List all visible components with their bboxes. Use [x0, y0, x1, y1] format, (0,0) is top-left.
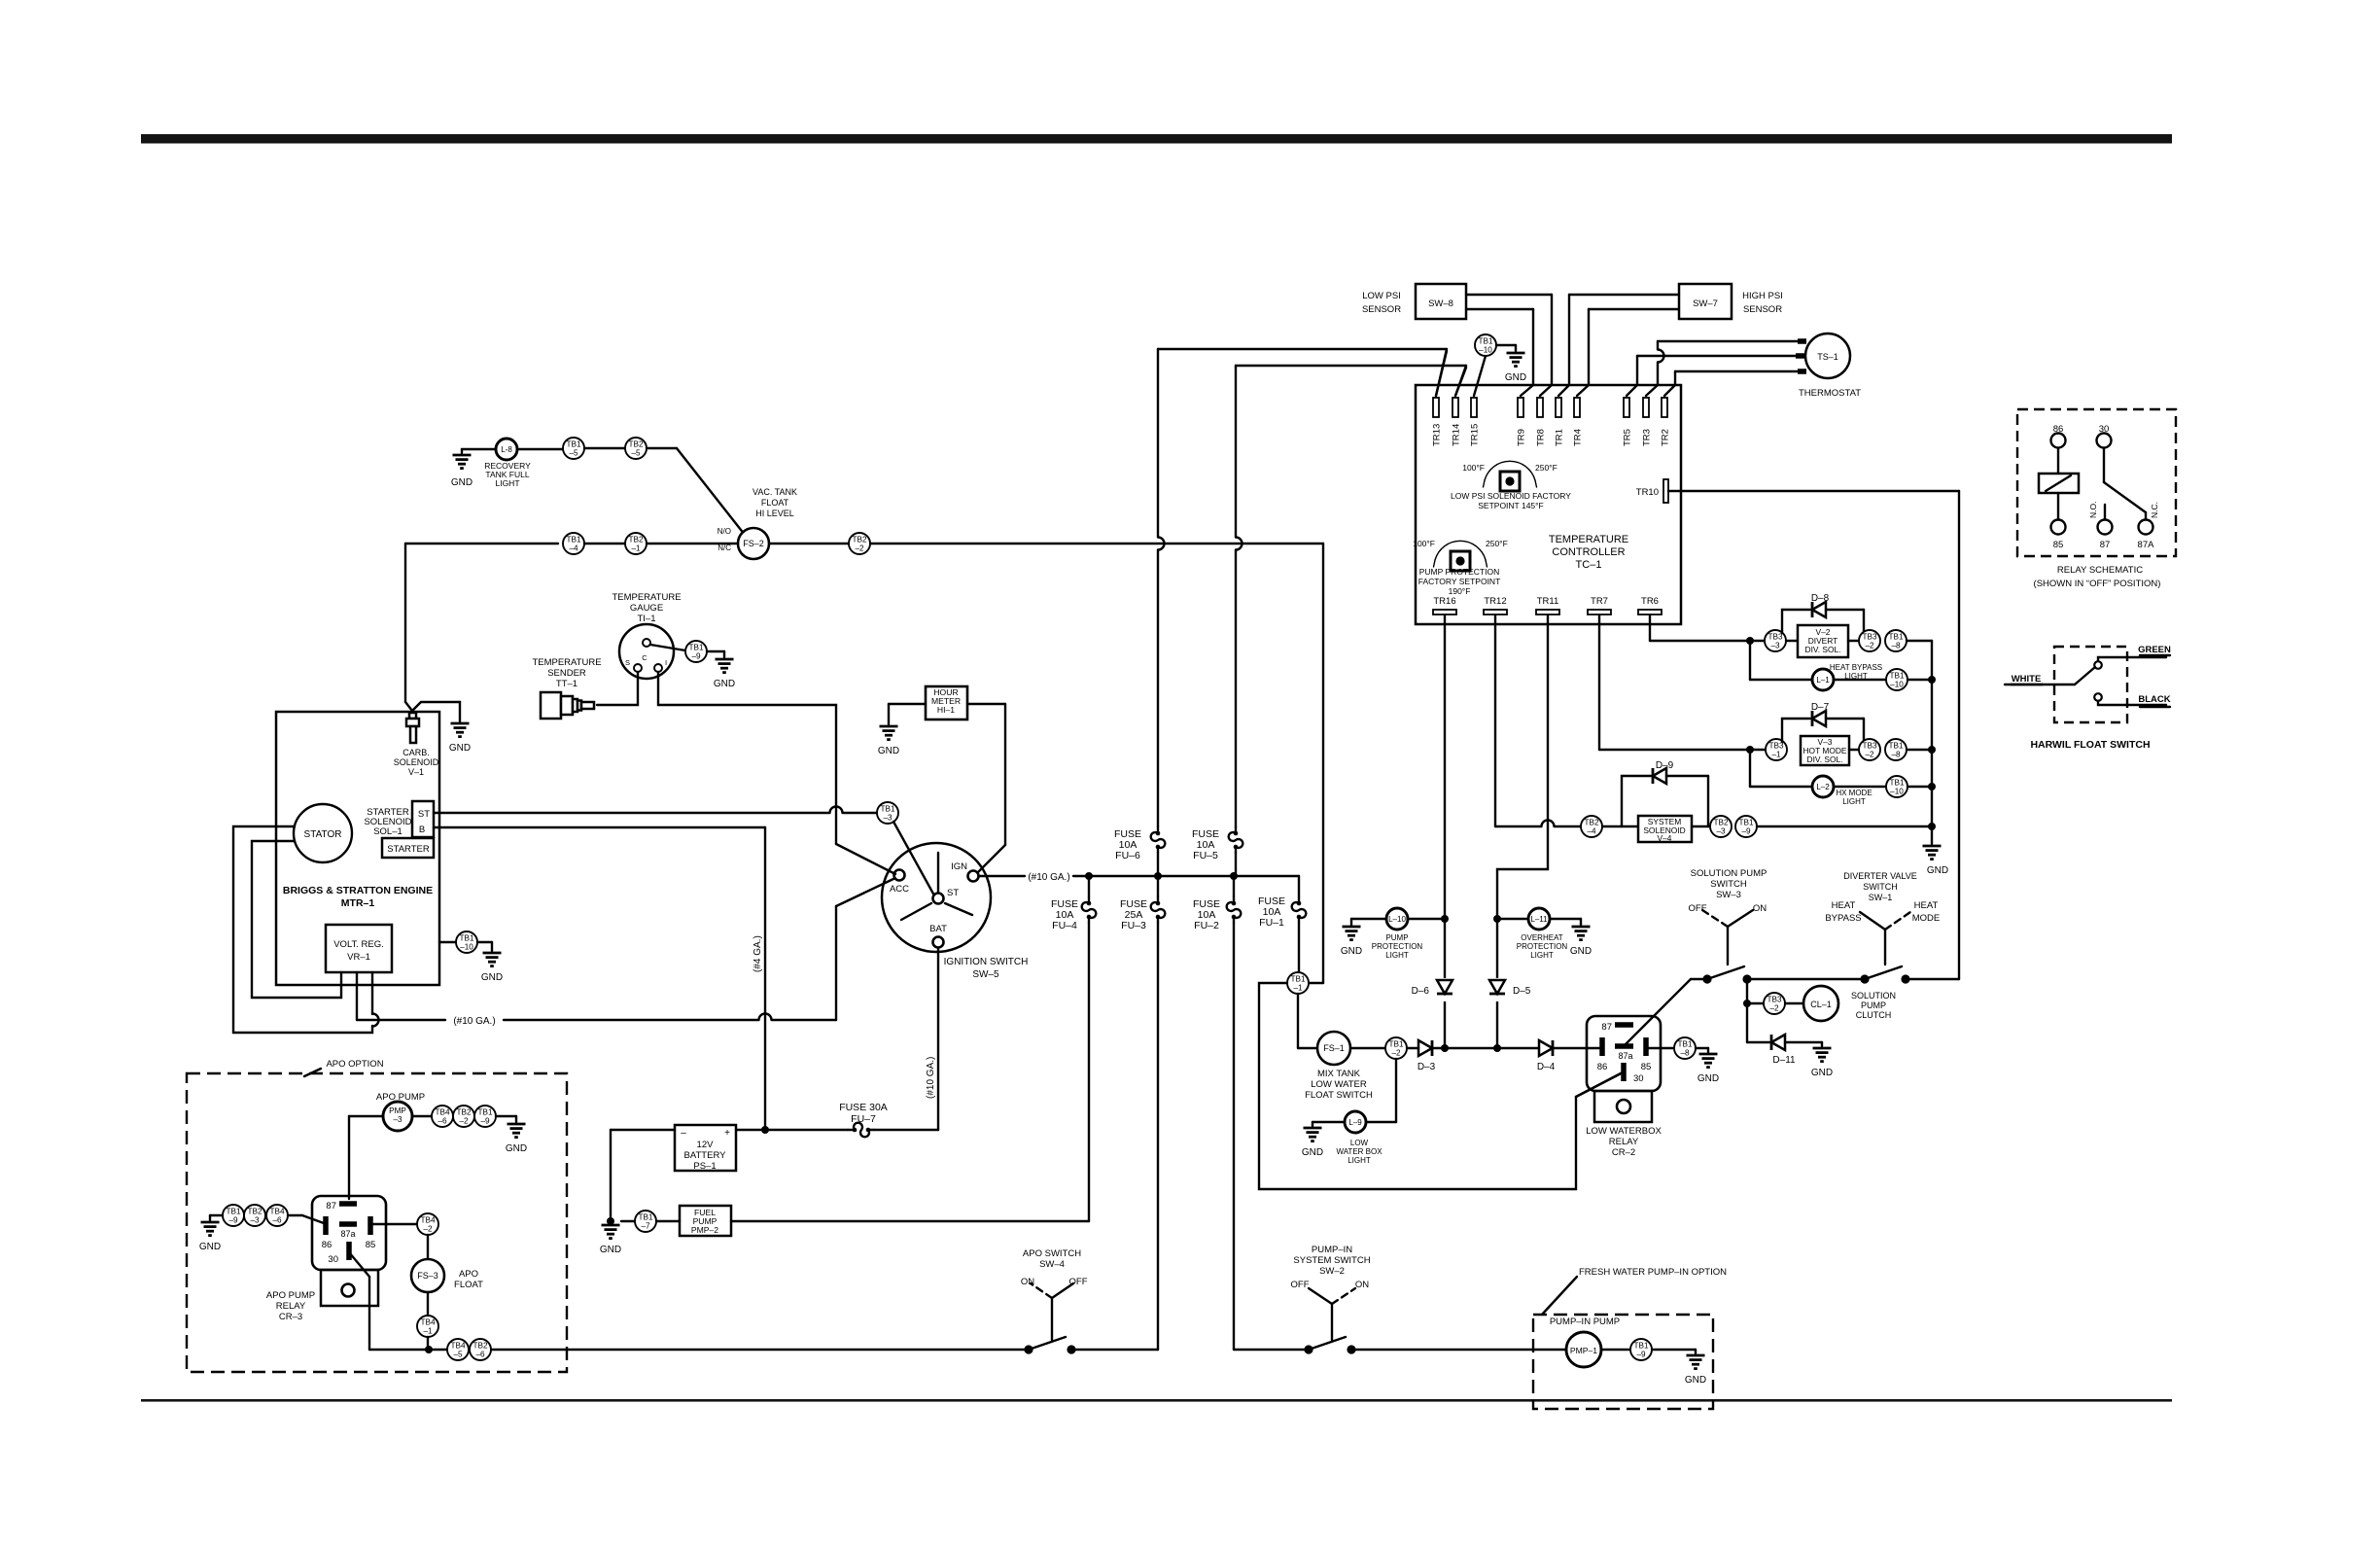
svg-text:TB1: TB1: [1633, 1342, 1648, 1351]
dashed box HARWIL FLOAT SWITCH: [2054, 647, 2127, 722]
svg-text:GND: GND: [506, 1143, 527, 1154]
lamp L-10 PUMP PROTECTION LIGHT: [1408, 918, 1445, 920]
svg-text:D–8: D–8: [1811, 593, 1830, 604]
svg-text:–10: –10: [460, 943, 473, 952]
junction dot battery plus: [761, 1126, 769, 1134]
svg-text:LIGHT: LIGHT: [1842, 797, 1866, 806]
svg-text:L–1: L–1: [1816, 676, 1830, 685]
fuse FU-1 FUSE 10A: [1298, 876, 1300, 896]
wire: TB1-10 to GND: [477, 941, 492, 943]
svg-text:GND: GND: [1302, 1147, 1323, 1158]
setpoint knob PUMP PROTECTION FACTORY SETPOINT 190F: [1451, 551, 1470, 571]
wire: D-4 to relay CR-2 pin 86: [1553, 1047, 1600, 1049]
svg-text:–8: –8: [1891, 751, 1901, 759]
box: FUEL PUMP PMP-2: [680, 1206, 731, 1236]
svg-text:SOLUTION: SOLUTION: [1851, 991, 1896, 1001]
svg-text:GND: GND: [600, 1245, 621, 1255]
svg-text:MTR–1: MTR–1: [341, 897, 375, 909]
svg-text:PROTECTION: PROTECTION: [1517, 942, 1568, 951]
svg-text:THERMOSTAT: THERMOSTAT: [1799, 388, 1861, 399]
pin I of TI-1: [654, 664, 662, 672]
terminal TR10 of TC-1: [1663, 479, 1668, 503]
svg-text:–6: –6: [272, 1216, 282, 1225]
terminal TB1-9 (gauge): [685, 641, 707, 662]
ground GND (battery): [602, 1224, 620, 1227]
wire: engine to TB1-10: [439, 941, 456, 943]
terminal TB2-3 (V-4): [1710, 816, 1732, 837]
svg-text:FU–7: FU–7: [851, 1113, 876, 1125]
svg-text:GND: GND: [481, 972, 503, 983]
svg-text:TT–1: TT–1: [556, 679, 577, 689]
svg-text:87: 87: [326, 1201, 336, 1211]
svg-text:TB4: TB4: [420, 1318, 435, 1327]
svg-text:30: 30: [328, 1254, 338, 1265]
terminal TB2-3 (CR-3): [244, 1205, 265, 1226]
ground GND (L-8): [453, 454, 472, 457]
wire: junction to D-4: [1497, 1047, 1539, 1049]
terminal TB1-10 (TC-1 top): [1475, 334, 1496, 356]
junction dot D-5 line: [1493, 1044, 1501, 1052]
svg-text:S: S: [625, 658, 630, 667]
svg-text:TR4: TR4: [1573, 429, 1584, 446]
wire: GND to TB1-9: [209, 1215, 211, 1220]
svg-text:–4: –4: [1587, 827, 1596, 836]
ground GND (CR-2): [1699, 1053, 1718, 1056]
wire: TB1-9 to GND: [496, 1115, 516, 1117]
terminal TB1-5: [563, 438, 584, 459]
svg-text:–2: –2: [1391, 1049, 1401, 1058]
wire: TB2-2 right then down to TB1-1: [870, 543, 1323, 544]
pin ACC: [894, 870, 905, 881]
mount tab of CR-2: [1594, 1091, 1652, 1122]
wire: FS-1 to TB1-2: [1350, 1047, 1385, 1049]
wire: V-4 to TB2-3: [1692, 825, 1710, 827]
float switch FS-1 MIX TANK LOW WATER: [1317, 1032, 1350, 1065]
wire: lead into TR2: [1664, 385, 1675, 396]
contact dots SW-2: [1304, 1345, 1312, 1353]
float switch FS-3 APO FLOAT: [411, 1259, 444, 1292]
svg-text:LOW PSI SOLENOID FACTORY: LOW PSI SOLENOID FACTORY: [1451, 491, 1571, 501]
wire: SW-4 to FU-3: [1071, 1349, 1158, 1351]
terminal TB3-3: [1765, 630, 1786, 651]
svg-text:HEAT: HEAT: [1914, 900, 1939, 911]
svg-text:–10: –10: [1890, 788, 1904, 796]
svg-text:–8: –8: [1680, 1049, 1690, 1058]
svg-text:–6: –6: [437, 1117, 447, 1126]
wire: SOL-1 B to battery (#4 GA.): [434, 826, 765, 828]
svg-text:TB2: TB2: [628, 440, 643, 449]
wire: TB1-8 to GND: [1696, 1047, 1708, 1049]
svg-text:LOW WATERBOX: LOW WATERBOX: [1586, 1126, 1662, 1137]
svg-text:PUMP: PUMP: [1861, 1001, 1886, 1010]
svg-text:GND: GND: [1811, 1068, 1833, 1078]
ground GND (carb solenoid): [451, 722, 470, 725]
svg-text:–2: –2: [423, 1225, 433, 1234]
svg-text:FRESH WATER PUMP–IN OPTION: FRESH WATER PUMP–IN OPTION: [1579, 1267, 1727, 1278]
svg-text:L–11: L–11: [1530, 915, 1548, 924]
svg-text:PUMP–IN PUMP: PUMP–IN PUMP: [1550, 1317, 1620, 1327]
svg-text:TB2: TB2: [628, 536, 643, 544]
junction dot L-11: [1493, 915, 1501, 923]
terminal TB1-8 (V-2): [1885, 630, 1907, 651]
fuse FU-4 FUSE 10A: [1088, 876, 1090, 896]
svg-text:FS–3: FS–3: [417, 1271, 438, 1281]
wire: TB2-4 to V-4: [1602, 825, 1638, 827]
svg-text:SW–7: SW–7: [1693, 298, 1718, 309]
svg-text:87A: 87A: [2138, 540, 2155, 550]
svg-text:HEAT: HEAT: [1832, 900, 1856, 911]
svg-text:BYPASS: BYPASS: [1825, 913, 1861, 924]
contact dots SW-1: [1860, 974, 1869, 983]
svg-text:CR–3: CR–3: [279, 1312, 302, 1322]
contact dots SW-4: [1024, 1345, 1032, 1353]
wire BLACK: [2098, 701, 2166, 705]
wire: S pin to temperature sender: [597, 672, 638, 705]
svg-text:TB2: TB2: [472, 1342, 487, 1351]
svg-text:–2: –2: [1865, 751, 1874, 759]
svg-text:L–9: L–9: [1348, 1118, 1362, 1127]
junction dots on fuse bus: [1085, 872, 1093, 880]
wire: D-3 to junction: [1432, 1047, 1445, 1049]
wire: TS-1 top to TR3: [1658, 340, 1801, 342]
svg-text:WATER BOX: WATER BOX: [1336, 1147, 1382, 1156]
diode D-4: [1539, 1040, 1553, 1056]
svg-text:GND: GND: [199, 1242, 221, 1252]
svg-text:OVERHEAT: OVERHEAT: [1521, 933, 1563, 942]
terminal TB1-8 (CR-2): [1674, 1037, 1696, 1059]
blade of SW-2: [1309, 1337, 1346, 1350]
svg-text:STARTER: STARTER: [387, 844, 430, 855]
wire GREEN: [2098, 657, 2166, 661]
svg-text:TB1: TB1: [638, 1213, 652, 1222]
svg-text:CLUTCH: CLUTCH: [1856, 1010, 1892, 1020]
pin 30 of CR-2: [1621, 1063, 1627, 1081]
clutch CL-1 SOLUTION PUMP CLUTCH: [1803, 986, 1838, 1021]
pin C of TI-1: [643, 639, 650, 647]
diode D-11: [1771, 1035, 1785, 1050]
pin ST: [933, 894, 944, 904]
svg-text:BLACK: BLACK: [2138, 694, 2170, 705]
svg-text:LIGHT: LIGHT: [495, 478, 519, 488]
svg-text:–5: –5: [453, 1351, 463, 1359]
svg-text:SW–1: SW–1: [1869, 893, 1893, 902]
wire: TS-1 middle to TR5: [1637, 355, 1801, 357]
pin 30 of CR-3: [346, 1242, 352, 1260]
pin 87a of CR-2: [1615, 1043, 1633, 1049]
diode D-6: [1437, 978, 1452, 1001]
terminal TB1-9 (V-4): [1735, 816, 1757, 837]
svg-text:TB2: TB2: [456, 1108, 471, 1117]
svg-text:OFF: OFF: [1291, 1280, 1310, 1290]
wire: TS-1 bottom to TR2: [1675, 370, 1801, 372]
wire: FS-2 line down to carb solenoid V-1: [404, 544, 406, 702]
terminal TB3-2 (V-2): [1859, 630, 1880, 651]
svg-text:D–11: D–11: [1772, 1055, 1796, 1066]
svg-text:TR11: TR11: [1537, 596, 1559, 607]
pin 85 of CR-3: [367, 1216, 373, 1235]
svg-text:VR–1: VR–1: [347, 952, 370, 963]
wire: FU-2 to pump-in switch SW-2: [1234, 1349, 1309, 1351]
wire: D-11 to GND: [1785, 1041, 1822, 1043]
svg-text:FS–2: FS–2: [743, 539, 764, 548]
sensor switch SW-8 LOW PSI SENSOR: [1416, 284, 1466, 319]
wire: TB1-2 to D-3: [1407, 1047, 1418, 1049]
wire: L-9 to GND: [1312, 1121, 1345, 1123]
svg-text:87a: 87a: [1618, 1051, 1632, 1061]
svg-text:TB1: TB1: [1290, 975, 1305, 984]
wire: TR6 down and right to V-2: [1649, 614, 1651, 641]
svg-text:TR1: TR1: [1555, 429, 1565, 446]
contact GREEN of float switch: [2094, 661, 2102, 669]
svg-text:TR7: TR7: [1591, 596, 1608, 607]
box: HOUR METER HI-1: [926, 686, 967, 720]
ground GND (D-11): [1813, 1047, 1832, 1050]
svg-text:–9: –9: [1636, 1351, 1646, 1359]
svg-text:N/O: N/O: [717, 527, 731, 536]
svg-text:SW–3: SW–3: [1716, 890, 1741, 900]
pin S of TI-1: [634, 664, 642, 672]
ground GND (L-9): [1304, 1127, 1322, 1130]
wire: battery plus to FU-7: [736, 1129, 848, 1131]
svg-text:FU–1: FU–1: [1259, 917, 1284, 929]
svg-text:100°F: 100°F: [1413, 539, 1435, 548]
svg-text:SOLENOID: SOLENOID: [394, 757, 439, 767]
svg-text:TC–1: TC–1: [1576, 559, 1602, 571]
svg-text:TR8: TR8: [1536, 429, 1547, 446]
junction dot L-10: [1441, 915, 1449, 923]
terminal TB3-2 (V-3): [1849, 749, 1859, 751]
wire: carb solenoid to GND: [412, 702, 460, 721]
svg-text:TR5: TR5: [1623, 429, 1633, 446]
wire: TR10 to diverter valve switch: [1668, 490, 1959, 492]
svg-text:TB1: TB1: [1888, 633, 1903, 642]
svg-text:85: 85: [1641, 1062, 1652, 1072]
blade of SW-3: [1707, 966, 1744, 979]
wire: lead into TR3: [1646, 385, 1658, 396]
sender TT-1 TEMPERATURE SENDER: [541, 692, 561, 719]
wire: TR13 feed horizontal: [1158, 348, 1447, 350]
mount tab of CR-3: [321, 1270, 378, 1306]
svg-text:GREEN: GREEN: [2138, 645, 2171, 655]
terminal TB1-10 (L-2): [1886, 776, 1907, 797]
svg-text:TB1: TB1: [688, 644, 703, 652]
ground GND (APO pump): [507, 1123, 526, 1126]
svg-text:TB4: TB4: [420, 1216, 435, 1225]
wire: L-2 to TB1-10: [1834, 786, 1886, 788]
svg-text:–3: –3: [250, 1216, 260, 1225]
wire: TR14 feed horizontal: [1236, 365, 1466, 367]
wire: CR-3 pin 30 to junction: [349, 1252, 369, 1277]
terminal TB1-9 (CR-3): [223, 1205, 244, 1226]
svg-text:FU–2: FU–2: [1194, 920, 1219, 931]
box: TEMPERATURE CONTROLLER TC-1: [1416, 385, 1681, 624]
wire: TB1-9 to GND: [1652, 1349, 1696, 1351]
pin 85 of CR-2: [1643, 1037, 1649, 1056]
wire: stator loop inner to VR-1: [252, 841, 341, 998]
svg-text:APO PUMP: APO PUMP: [266, 1290, 315, 1301]
svg-text:TB2: TB2: [1713, 819, 1728, 827]
svg-text:GND: GND: [451, 477, 472, 488]
svg-text:FUSE 30A: FUSE 30A: [839, 1102, 888, 1113]
wire: TB4-1 to junction: [427, 1337, 429, 1350]
wire: TB1-10 lead into TR15: [1474, 356, 1486, 396]
terminal TB1-10 (engine): [456, 931, 477, 953]
fuse FU-6 FUSE 10A: [1151, 826, 1166, 853]
pin 87a of CR-3: [339, 1221, 357, 1227]
svg-text:LIGHT: LIGHT: [1530, 951, 1554, 960]
wire: I pin to ACC vertical: [658, 672, 836, 844]
wire: IGN to fuse bus (#10 GA.): [979, 875, 1025, 877]
wire: SW-7 bottom to TR4: [1589, 308, 1679, 310]
svg-text:TB1: TB1: [880, 805, 894, 814]
wire: FU-6 branch up to TR13: [1157, 349, 1159, 537]
wire: junction to TB3-2: [1747, 1002, 1764, 1004]
svg-text:SW–4: SW–4: [1039, 1259, 1065, 1270]
wire: VR-1 output (#10 GA.) to ACC: [356, 972, 358, 1020]
svg-text:VOLT. REG.: VOLT. REG.: [333, 939, 384, 950]
svg-text:TR12: TR12: [1484, 596, 1506, 607]
wire: V-2 to TB3-2: [1848, 640, 1859, 642]
svg-text:CARB.: CARB.: [402, 748, 430, 757]
svg-text:–9: –9: [480, 1117, 490, 1126]
svg-text:VAC. TANK: VAC. TANK: [752, 487, 797, 497]
svg-text:N.C.: N.C.: [2150, 502, 2159, 518]
svg-text:–9: –9: [691, 652, 701, 661]
svg-text:WHITE: WHITE: [2012, 674, 2042, 685]
svg-text:LOW: LOW: [1350, 1139, 1369, 1147]
ground GND (TC-1 top): [1507, 352, 1525, 355]
wire: FS-2 to TB2-2: [769, 543, 849, 544]
top title bar: [141, 134, 2172, 144]
svg-text:SW–5: SW–5: [972, 969, 999, 980]
svg-text:HEAT BYPASS: HEAT BYPASS: [1830, 663, 1882, 672]
terminal TB1-1: [1287, 972, 1309, 994]
svg-text:GND: GND: [1927, 865, 1948, 876]
box: STARTER SOLENOID SOL-1: [412, 801, 434, 837]
svg-text:(#4 GA.): (#4 GA.): [752, 935, 763, 972]
wire: TB1-10 to GND: [1496, 344, 1516, 346]
svg-text:87: 87: [2100, 540, 2111, 550]
svg-text:GND: GND: [1341, 946, 1362, 957]
svg-text:12V: 12V: [697, 1140, 715, 1150]
svg-text:GND: GND: [1685, 1375, 1706, 1386]
svg-text:L–10: L–10: [1388, 915, 1406, 924]
wire: FU-5 branch up to TR14: [1235, 366, 1237, 537]
generator STATOR: [294, 804, 352, 862]
svg-text:TB1: TB1: [566, 440, 580, 449]
svg-text:SYSTEM SWITCH: SYSTEM SWITCH: [1293, 1255, 1370, 1266]
svg-text:CR–2: CR–2: [1612, 1147, 1635, 1158]
pin 86 of relay schematic: [2051, 434, 2066, 448]
bottom rule: [141, 1399, 2172, 1402]
svg-text:TEMPERATURE: TEMPERATURE: [1549, 534, 1628, 545]
svg-text:87a: 87a: [340, 1229, 355, 1239]
wire: SW-7 top to TR1: [1569, 294, 1679, 296]
svg-text:TB2: TB2: [1584, 819, 1598, 827]
svg-text:B: B: [419, 825, 425, 835]
svg-text:HI–1: HI–1: [937, 705, 955, 715]
diode D-7 loop over V-3: [1782, 719, 1810, 742]
svg-text:250°F: 250°F: [1486, 539, 1508, 548]
terminal TB1-9 (pump-in): [1630, 1339, 1652, 1360]
contact dots SW-3: [1702, 974, 1711, 983]
svg-text:STATOR: STATOR: [304, 829, 342, 840]
terminal TB4-6 (pump): [432, 1106, 453, 1127]
svg-text:SENSOR: SENSOR: [1743, 304, 1782, 315]
contact BLACK of float switch: [2094, 693, 2102, 701]
wire: L-10 to GND: [1351, 918, 1386, 920]
solenoid V-2 DIVERT DIV. SOL.: [1798, 625, 1848, 657]
svg-text:APO OPTION: APO OPTION: [326, 1059, 383, 1070]
svg-text:RELAY SCHEMATIC: RELAY SCHEMATIC: [2057, 565, 2143, 576]
svg-text:TB3: TB3: [1767, 633, 1782, 642]
gauge TI-1 TEMPERATURE GAUGE: [619, 624, 674, 679]
svg-text:86: 86: [1597, 1062, 1608, 1072]
svg-text:–1: –1: [423, 1327, 433, 1336]
svg-text:TR3: TR3: [1642, 429, 1653, 446]
svg-text:–1: –1: [631, 544, 641, 553]
svg-text:–10: –10: [1890, 681, 1904, 689]
svg-text:TR2: TR2: [1661, 429, 1671, 446]
svg-text:TR10: TR10: [1636, 487, 1659, 498]
svg-text:–3: –3: [1716, 827, 1726, 836]
wire: TB1-9 to ground bus: [1757, 825, 1932, 827]
svg-text:LIGHT: LIGHT: [1385, 951, 1409, 960]
svg-text:HARWIL FLOAT SWITCH: HARWIL FLOAT SWITCH: [2030, 739, 2150, 751]
fuse FU-2 FUSE 10A: [1233, 876, 1235, 896]
svg-text:TB1: TB1: [1888, 742, 1903, 751]
wire: SW-3 to SW-1: [1747, 978, 1865, 980]
svg-text:TR9: TR9: [1517, 429, 1527, 446]
ground GND (engine TB1-10): [483, 952, 502, 955]
svg-text:SWITCH: SWITCH: [1710, 879, 1747, 890]
svg-text:85: 85: [2053, 540, 2064, 550]
blade of SW-4: [1029, 1337, 1066, 1350]
svg-text:TB1: TB1: [459, 934, 473, 943]
svg-text:PMP–2: PMP–2: [691, 1225, 718, 1235]
svg-text:–3: –3: [1770, 642, 1780, 650]
wire: HI-1 to GND: [889, 703, 926, 705]
terminal TB4-6 (CR-3): [266, 1205, 288, 1226]
svg-text:HI LEVEL: HI LEVEL: [755, 509, 794, 518]
svg-text:FLOAT SWITCH: FLOAT SWITCH: [1305, 1090, 1373, 1101]
svg-text:TB1: TB1: [226, 1208, 240, 1216]
wire: TB1-3 to ignition ST: [893, 822, 934, 895]
wire: SW-8 bottom to TR9: [1466, 308, 1533, 310]
svg-text:(SHOWN IN “OFF” POSITION): (SHOWN IN “OFF” POSITION): [2034, 579, 2161, 589]
wire: TB1-1 left down to FS-1 and CR-2 pin 30: [1259, 983, 1623, 1189]
lamp L-8: [496, 439, 517, 460]
svg-text:(#10 GA.): (#10 GA.): [926, 1057, 936, 1099]
terminal TB1-9 (pump): [474, 1106, 496, 1127]
svg-text:PUMP: PUMP: [1385, 933, 1408, 942]
svg-text:TR14: TR14: [1452, 424, 1462, 446]
svg-text:MODE: MODE: [1912, 913, 1941, 924]
key lines of SW-5: [937, 853, 939, 893]
svg-text:–3: –3: [393, 1115, 402, 1124]
pin BAT: [933, 937, 944, 948]
wire: CR-2 pin 85 to TB1-8: [1648, 1047, 1674, 1049]
wire: TB1-5 to TB2-5: [584, 447, 625, 449]
svg-text:D–9: D–9: [1656, 760, 1674, 771]
svg-text:ACC: ACC: [890, 884, 909, 895]
wire: CR-2 pin 30 diagonal: [1576, 1072, 1623, 1097]
svg-text:FACTORY SETPOINT: FACTORY SETPOINT: [1418, 577, 1501, 586]
svg-text:BRIGGS & STRATTON ENGINE: BRIGGS & STRATTON ENGINE: [283, 885, 433, 896]
junction dot battery minus / fuel pump: [607, 1217, 614, 1225]
svg-text:TB3: TB3: [1862, 742, 1876, 751]
svg-text:(#10 GA.): (#10 GA.): [1028, 872, 1069, 883]
